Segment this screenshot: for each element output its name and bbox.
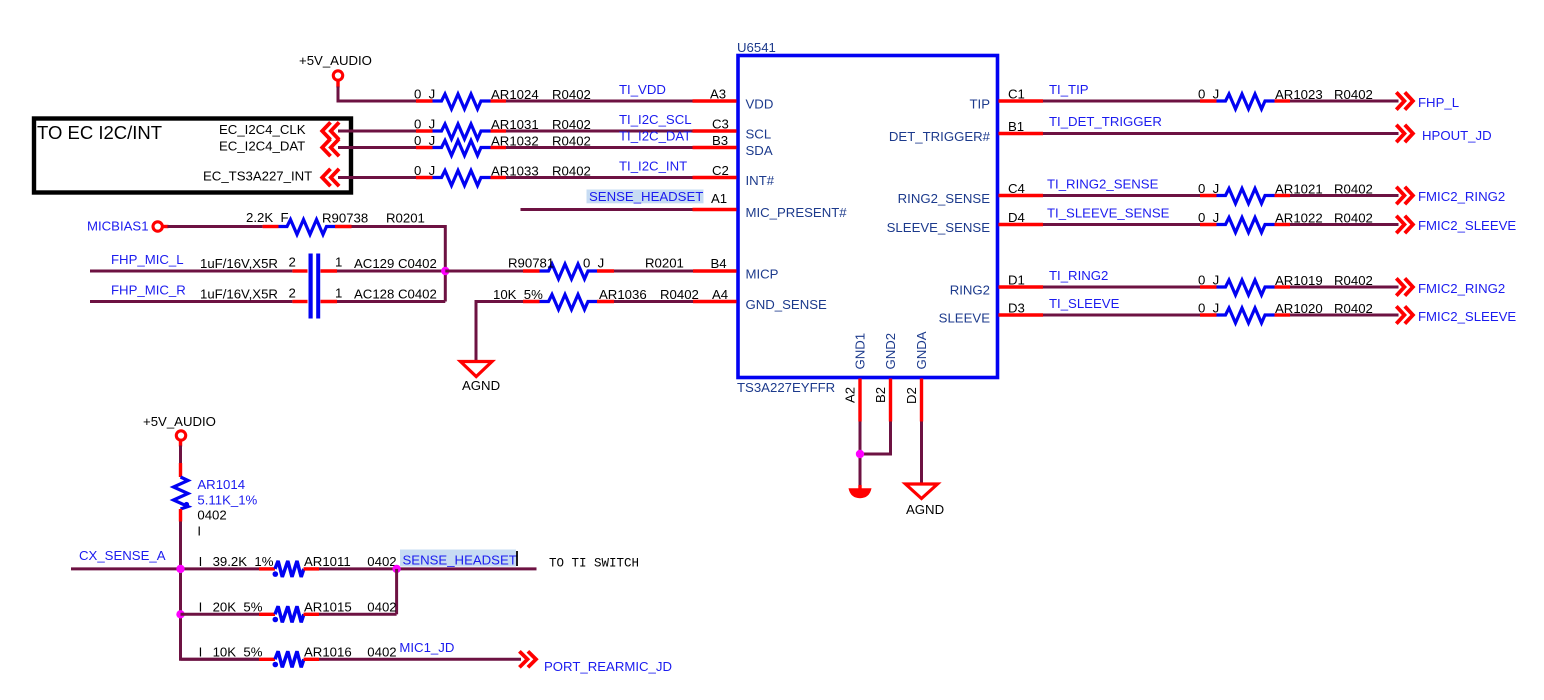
svg-text:EC_I2C4_CLK: EC_I2C4_CLK <box>219 122 306 137</box>
svg-text:SLEEVE_SENSE: SLEEVE_SENSE <box>887 220 991 235</box>
svg-text:0402: 0402 <box>367 645 396 660</box>
svg-text:DET_TRIGGER#: DET_TRIGGER# <box>889 129 991 144</box>
capacitor plates AC129/AC128 <box>311 254 319 319</box>
pin A1 MIC_PRESENT# <box>693 191 848 220</box>
svg-text:39.2K 1%: 39.2K 1% <box>213 554 274 569</box>
svg-text:0402: 0402 <box>367 600 396 615</box>
svg-text:INT#: INT# <box>746 173 775 188</box>
pin D1 RING2 <box>950 273 1043 298</box>
svg-text:0402: 0402 <box>367 554 396 569</box>
svg-text:2: 2 <box>289 255 296 270</box>
resistor AR1014 5.11K_1% 0402 (vertical) <box>174 463 258 538</box>
resistor AR1036 10K 5% R0402 <box>493 287 699 310</box>
resistor AR1021 0 J R0402 <box>1198 181 1373 204</box>
svg-text:R0402: R0402 <box>660 287 699 302</box>
power symbol +5V_AUDIO (bottom) <box>143 414 216 440</box>
wire net TI_SLEEVE_SENSE <box>1043 206 1200 225</box>
svg-text:I: I <box>199 600 203 615</box>
svg-text:1uF/16V,X5R: 1uF/16V,X5R <box>200 287 278 302</box>
svg-text:C1: C1 <box>1008 87 1025 102</box>
output chevron FMIC2_SLEEVE (lower) <box>1396 306 1516 324</box>
svg-text:TI_I2C_INT: TI_I2C_INT <box>619 159 687 174</box>
svg-text:SDA: SDA <box>746 143 773 158</box>
wire net SENSE_HEADSET (bottom) <box>319 550 639 571</box>
svg-text:D1: D1 <box>1008 273 1025 288</box>
wire net TI_DET_TRIGGER <box>1043 114 1399 134</box>
svg-text:2.2K F: 2.2K F <box>246 210 289 225</box>
svg-text:TI_I2C_SCL: TI_I2C_SCL <box>619 112 692 127</box>
svg-text:EC_TS3A227_INT: EC_TS3A227_INT <box>203 169 312 184</box>
svg-text:SLEEVE: SLEEVE <box>939 311 991 326</box>
svg-text:B2: B2 <box>873 387 888 403</box>
pin A4 GND_SENSE <box>693 287 827 312</box>
output chevron FMIC2_RING2 (lower) <box>1396 278 1505 296</box>
svg-text:RING2_SENSE: RING2_SENSE <box>898 191 991 206</box>
svg-text:1uF/16V,X5R: 1uF/16V,X5R <box>200 256 278 271</box>
svg-text:0 J: 0 J <box>414 163 435 178</box>
resistor AR1031 0 J R0402 <box>414 117 591 140</box>
wire net TI_VDD <box>506 82 693 101</box>
svg-text:5.11K_1%: 5.11K_1% <box>197 493 257 508</box>
input chevron EC_TS3A227_INT <box>322 169 339 186</box>
svg-text:TI_I2C_DAT: TI_I2C_DAT <box>619 129 691 144</box>
svg-text:R90781: R90781 <box>508 256 554 271</box>
svg-text:AGND: AGND <box>462 378 500 393</box>
svg-text:TI_RING2: TI_RING2 <box>1049 268 1108 283</box>
svg-text:TI_DET_TRIGGER: TI_DET_TRIGGER <box>1049 114 1162 129</box>
svg-text:10K 5%: 10K 5% <box>213 645 263 660</box>
wire GND1 down to ground <box>859 422 862 487</box>
wire AR1022 to FMIC2_SLEEVE <box>1290 223 1399 226</box>
resistor AR1019 0 J R0402 <box>1198 273 1373 296</box>
pin B4 MICP <box>693 256 779 282</box>
svg-text:0 J: 0 J <box>1198 87 1219 102</box>
svg-text:EC_I2C4_DAT: EC_I2C4_DAT <box>219 139 305 154</box>
pin A2 GND1 <box>843 333 868 422</box>
svg-text:AR1036: AR1036 <box>599 287 647 302</box>
svg-text:B1: B1 <box>1008 119 1024 134</box>
svg-text:C4: C4 <box>1008 181 1025 196</box>
resistor AR1011 39.2K 1% 0402 <box>199 554 397 577</box>
wire AR1015 jog up to SENSE_HEADSET <box>395 569 398 614</box>
svg-text:PORT_REARMIC_JD: PORT_REARMIC_JD <box>544 659 672 674</box>
svg-text:AC128 C0402: AC128 C0402 <box>354 287 437 302</box>
svg-text:C3: C3 <box>712 117 729 132</box>
pin B2 GND2 <box>873 333 898 422</box>
svg-text:0402: 0402 <box>197 508 226 523</box>
svg-text:0 J: 0 J <box>1198 273 1219 288</box>
wire net TI_I2C_SCL <box>506 112 693 131</box>
svg-text:GND_SENSE: GND_SENSE <box>746 297 828 312</box>
svg-text:0 J: 0 J <box>1198 181 1219 196</box>
svg-text:SCL: SCL <box>746 127 772 142</box>
svg-text:TI_RING2_SENSE: TI_RING2_SENSE <box>1047 177 1159 192</box>
junction node GND1/GND2 <box>856 450 864 458</box>
svg-text:D3: D3 <box>1008 301 1025 316</box>
svg-text:AR1016: AR1016 <box>304 645 352 660</box>
wire net FHP_MIC_L <box>90 270 292 273</box>
wire GNDA to AGND <box>920 422 923 486</box>
input chevron EC_I2C4_DAT <box>322 139 339 156</box>
resistor AR1032 0 J R0402 <box>414 133 591 156</box>
resistor R90781 0 J R0201 <box>508 256 684 280</box>
wire EC_I2C4_CLK to AR1031 <box>338 130 416 133</box>
svg-text:FMIC2_SLEEVE: FMIC2_SLEEVE <box>1418 309 1516 324</box>
svg-text:0 J: 0 J <box>414 87 435 102</box>
wire AR1036 to pin A4 <box>614 300 693 303</box>
svg-text:R0201: R0201 <box>645 256 684 271</box>
svg-text:B4: B4 <box>711 256 727 271</box>
pin B1 DET_TRIGGER# <box>889 119 1043 144</box>
wire AR1019 to FMIC2_RING2 <box>1290 286 1399 289</box>
output chevron FHP_L <box>1396 92 1459 110</box>
svg-text:AR1014: AR1014 <box>197 477 245 492</box>
output chevron FMIC2_RING2 <box>1396 187 1505 204</box>
wire bus to AR1015 <box>181 613 260 616</box>
svg-text:RING2: RING2 <box>950 283 990 298</box>
svg-text:FHP_L: FHP_L <box>1418 95 1459 110</box>
pin B3 SDA <box>693 133 773 158</box>
ground AGND (left) <box>461 362 501 394</box>
svg-text:AC129 C0402: AC129 C0402 <box>354 256 437 271</box>
svg-text:VDD: VDD <box>746 97 774 112</box>
junction node MICP net <box>441 267 449 275</box>
capacitor AC128 1uF/16V,X5R C0402 <box>200 286 437 302</box>
resistor AR1016 10K 5% 0402 <box>199 645 397 668</box>
svg-text:B3: B3 <box>712 133 728 148</box>
svg-text:20K 5%: 20K 5% <box>213 600 263 615</box>
wire net MIC1_JD <box>319 640 521 659</box>
wire EC_I2C4_DAT to AR1032 <box>338 146 416 149</box>
wire net TI_RING2_SENSE <box>1043 177 1200 196</box>
svg-text:TI_SLEEVE_SENSE: TI_SLEEVE_SENSE <box>1047 206 1170 221</box>
wire AR1015 output <box>319 613 397 616</box>
svg-text:I: I <box>197 523 201 538</box>
svg-text:TI_SLEEVE: TI_SLEEVE <box>1049 296 1120 311</box>
output chevron HPOUT_JD <box>1396 125 1491 143</box>
power symbol MICBIAS1 <box>87 219 162 234</box>
svg-text:10K 5%: 10K 5% <box>493 287 543 302</box>
svg-text:U6541: U6541 <box>737 40 776 55</box>
svg-text:AR1011: AR1011 <box>304 554 351 569</box>
svg-text:0 J: 0 J <box>414 133 435 148</box>
pin C3 SCL <box>693 117 772 142</box>
wire bus to AR1016 <box>181 658 260 661</box>
svg-text:FMIC2_RING2: FMIC2_RING2 <box>1418 281 1505 296</box>
wire AC129 to junction <box>337 270 445 273</box>
svg-text:SENSE_HEADSET: SENSE_HEADSET <box>403 553 517 568</box>
wire net CX_SENSE_A <box>71 567 259 570</box>
svg-text:TIP: TIP <box>969 97 990 112</box>
pin D4 SLEEVE_SENSE <box>887 210 1043 235</box>
resistor AR1015 20K 5% 0402 <box>199 600 397 623</box>
ground earth symbol (filled) <box>849 488 872 498</box>
svg-text:MICP: MICP <box>746 267 779 282</box>
svg-text:FMIC2_RING2: FMIC2_RING2 <box>1418 189 1505 204</box>
svg-text:CX_SENSE_A: CX_SENSE_A <box>79 548 166 563</box>
wire MICBIAS1 to R90738 <box>162 225 169 228</box>
svg-text:GND1: GND1 <box>853 333 868 370</box>
wire R90781 to pin B4 <box>614 270 693 273</box>
resistor AR1024 0 J R0402 <box>414 87 591 110</box>
wire net TI_I2C_INT <box>506 159 693 178</box>
wire net TI_TIP <box>1043 82 1200 101</box>
input chevron EC_I2C4_CLK <box>322 122 339 139</box>
svg-text:A4: A4 <box>712 287 728 302</box>
svg-text:0 J: 0 J <box>414 117 435 132</box>
svg-text:FHP_MIC_R: FHP_MIC_R <box>111 283 186 298</box>
svg-text:MICBIAS1: MICBIAS1 <box>87 219 149 234</box>
box TO EC I2C/INT <box>34 119 351 193</box>
svg-text:MIC1_JD: MIC1_JD <box>399 640 454 655</box>
output chevron FMIC2_SLEEVE <box>1396 216 1516 233</box>
resistor AR1020 0 J R0402 <box>1198 301 1373 324</box>
svg-text:1: 1 <box>335 255 342 270</box>
wire GND2 jog to GND1 <box>860 422 891 455</box>
svg-text:A3: A3 <box>710 87 726 102</box>
resistor R90738 2.2K F R0201 <box>246 210 425 235</box>
pin D3 SLEEVE <box>939 301 1043 326</box>
svg-text:A1: A1 <box>711 191 727 206</box>
svg-text:FHP_MIC_L: FHP_MIC_L <box>111 252 184 267</box>
svg-text:C2: C2 <box>712 163 729 178</box>
svg-text:TO TI SWITCH: TO TI SWITCH <box>549 557 639 571</box>
svg-text:FMIC2_SLEEVE: FMIC2_SLEEVE <box>1418 218 1516 233</box>
wire net FHP_MIC_R <box>90 300 292 303</box>
pin C2 INT# <box>693 163 775 188</box>
resistor AR1023 0 J R0402 <box>1198 87 1373 110</box>
wire AC128 to vertical bus <box>337 300 445 303</box>
svg-text:1: 1 <box>335 286 342 301</box>
output chevron PORT_REARMIC_JD <box>519 651 672 674</box>
svg-text:GND2: GND2 <box>883 333 898 370</box>
svg-text:A2: A2 <box>843 387 858 403</box>
svg-text:+5V_AUDIO: +5V_AUDIO <box>299 53 372 68</box>
resistor AR1022 0 J R0402 <box>1198 210 1373 233</box>
svg-text:TS3A227EYFFR: TS3A227EYFFR <box>737 380 835 395</box>
svg-text:MIC_PRESENT#: MIC_PRESENT# <box>746 205 848 220</box>
pin C1 TIP <box>969 87 1043 112</box>
wire AR1021 to FMIC2_RING2 <box>1290 194 1399 197</box>
wire +5V_AUDIO to AR1014 <box>179 440 182 447</box>
svg-text:D4: D4 <box>1008 210 1025 225</box>
power symbol +5V_AUDIO (top) <box>299 53 372 80</box>
svg-text:HPOUT_JD: HPOUT_JD <box>1422 128 1492 143</box>
junction node SENSE_HEADSET / AR1015 <box>392 565 400 573</box>
svg-text:+5V_AUDIO: +5V_AUDIO <box>143 414 216 429</box>
svg-text:D2: D2 <box>904 387 919 404</box>
wire AR1020 to FMIC2_SLEEVE <box>1290 314 1399 317</box>
svg-text:TO EC I2C/INT: TO EC I2C/INT <box>37 122 162 143</box>
wire net SENSE_HEADSET to pin A1 <box>521 189 704 210</box>
svg-text:GNDA: GNDA <box>914 331 929 369</box>
svg-text:0 J: 0 J <box>1198 301 1219 316</box>
wire AR1023 to FHP_L <box>1290 100 1399 103</box>
wire net TI_RING2 <box>1043 268 1200 287</box>
capacitor AC129 1uF/16V,X5R C0402 <box>200 255 437 272</box>
wire +5V_AUDIO to AR1024 <box>336 80 339 88</box>
svg-text:TI_VDD: TI_VDD <box>619 82 666 97</box>
ground AGND (right) <box>906 484 945 517</box>
svg-text:2: 2 <box>289 286 296 301</box>
svg-text:R0201: R0201 <box>386 211 425 226</box>
svg-text:TI_TIP: TI_TIP <box>1049 82 1089 97</box>
wire net TI_SLEEVE <box>1043 296 1200 315</box>
svg-text:I: I <box>199 554 203 569</box>
svg-text:AR1015: AR1015 <box>304 600 352 615</box>
svg-text:AGND: AGND <box>906 502 944 517</box>
wire EC_TS3A227_INT to AR1033 <box>338 176 416 179</box>
svg-text:SENSE_HEADSET: SENSE_HEADSET <box>589 189 703 204</box>
wire net TI_I2C_DAT <box>506 129 693 148</box>
wire junction to R90781 <box>445 270 523 273</box>
svg-text:0 J: 0 J <box>583 256 604 271</box>
svg-text:I: I <box>199 645 203 660</box>
wire AGND branch to AR1036 <box>476 302 523 362</box>
junction node bus / 20K row <box>176 610 184 618</box>
junction node CX_SENSE_A / bus <box>176 565 184 573</box>
svg-text:0 J: 0 J <box>1198 210 1219 225</box>
pin C4 RING2_SENSE <box>898 181 1043 206</box>
IC U6541 TS3A227EYFFR body <box>737 40 998 395</box>
pin D2 GNDA <box>904 331 929 421</box>
resistor AR1033 0 J R0402 <box>414 163 591 186</box>
svg-text:R90738: R90738 <box>322 211 368 226</box>
wire vertical bus AR1014 to 10K row <box>181 522 260 660</box>
wire R90738 output to vertical bus <box>352 227 446 302</box>
pin A3 VDD <box>693 87 774 112</box>
